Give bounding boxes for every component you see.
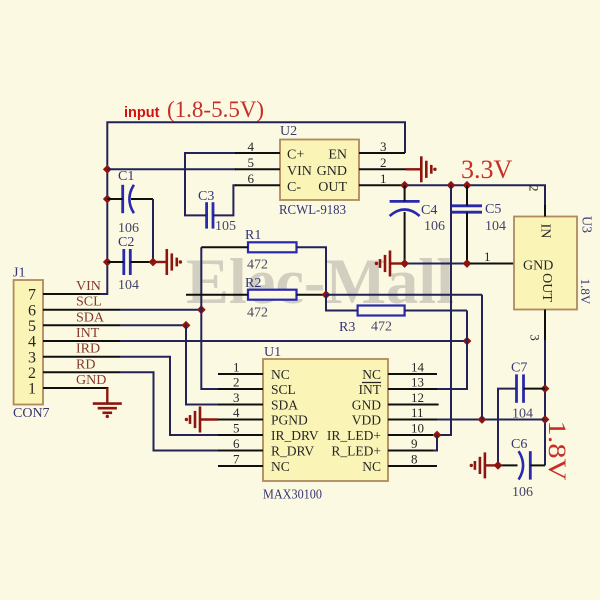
- wire GND rail: [405, 263, 470, 265]
- svg-text:(1.8-5.5V): (1.8-5.5V): [167, 97, 264, 122]
- svg-text:2: 2: [380, 155, 387, 170]
- svg-text:GND: GND: [76, 373, 106, 388]
- junction LED pins: [433, 431, 442, 440]
- pin U1.7 stub: [218, 465, 263, 467]
- wire SCL to R1 and U1.2: [201, 247, 218, 389]
- svg-text:R2: R2: [245, 276, 261, 291]
- resistor R3: [358, 306, 405, 316]
- pin J1 GND stub: [43, 387, 109, 389]
- svg-text:U1: U1: [264, 345, 281, 360]
- capacitor C7: [515, 374, 518, 402]
- wire SCL row: [120, 309, 201, 311]
- pin U1.1 stub: [218, 373, 263, 375]
- pin J1 SDA stub: [43, 324, 120, 326]
- pin U3.2 stub: [544, 205, 546, 217]
- junction C6 left: [494, 461, 503, 470]
- pin U2.4 stub: [235, 152, 280, 154]
- svg-text:5: 5: [28, 318, 36, 335]
- wire PGND stub (red): [201, 418, 218, 420]
- svg-text:C6: C6: [511, 437, 527, 452]
- svg-text:4: 4: [248, 139, 255, 154]
- op-amp U2 body: [280, 140, 359, 201]
- svg-text:INT: INT: [76, 326, 100, 341]
- svg-text:13: 13: [411, 375, 424, 390]
- wire C4 bottom lead: [404, 212, 406, 264]
- junction 1.8V row: [541, 415, 550, 424]
- svg-text:106: 106: [512, 485, 533, 500]
- pin J1 IRD stub: [43, 356, 120, 358]
- pin U1.2 stub: [218, 388, 263, 390]
- svg-text:1.8V: 1.8V: [578, 279, 593, 305]
- svg-text:472: 472: [247, 306, 268, 321]
- svg-text:IN: IN: [538, 224, 553, 239]
- wire R3 left lead: [326, 295, 358, 311]
- wire C7 left lead: [498, 389, 517, 466]
- junction C7 right: [541, 384, 550, 393]
- pin U1.6 stub: [218, 450, 263, 452]
- wire R2 left lead: [186, 294, 248, 296]
- junction rail/C5: [463, 181, 472, 190]
- svg-text:106: 106: [424, 219, 445, 234]
- junction rail/C4: [400, 181, 409, 190]
- svg-text:SDA: SDA: [271, 397, 298, 412]
- svg-text:C2: C2: [118, 235, 134, 250]
- svg-text:CON7: CON7: [13, 406, 50, 421]
- svg-text:1: 1: [233, 360, 240, 375]
- pin U2.2 stub: [359, 168, 406, 170]
- svg-text:VIN: VIN: [287, 164, 312, 179]
- capacitor C5: [452, 204, 482, 207]
- svg-text:input: input: [124, 105, 160, 121]
- svg-text:104: 104: [118, 278, 139, 293]
- svg-text:1: 1: [484, 249, 491, 264]
- wire R1 right lead: [297, 247, 327, 294]
- svg-text:OUT: OUT: [539, 273, 554, 302]
- svg-text:3: 3: [233, 390, 240, 405]
- ic U1 body: [263, 359, 388, 481]
- wire VIN bus (J1.7 to top rail to U2 EN): [100, 122, 405, 294]
- wire GND rail stub (red): [390, 262, 405, 264]
- svg-text:RD: RD: [76, 357, 95, 372]
- pin U1.4 stub: [218, 419, 263, 421]
- svg-text:3.3V: 3.3V: [461, 155, 513, 184]
- svg-text:3: 3: [380, 139, 387, 154]
- svg-text:472: 472: [371, 320, 392, 335]
- pin U1.14 stub: [388, 373, 437, 375]
- wire SDA to R2 and U1.3: [186, 325, 218, 404]
- svg-text:10: 10: [411, 421, 424, 436]
- wire C1 left lead: [107, 198, 122, 200]
- svg-text:RCWL-9183: RCWL-9183: [279, 202, 346, 217]
- wire C1 right lead: [131, 198, 153, 200]
- pin U2.3 stub: [359, 152, 405, 154]
- ground at PGND: [199, 407, 202, 433]
- svg-text:SDA: SDA: [76, 310, 105, 325]
- svg-text:R_LED+: R_LED+: [331, 443, 381, 458]
- pin U2.1 stub: [359, 184, 405, 186]
- svg-text:NC: NC: [362, 367, 381, 382]
- wire C1 to C2 (vertical): [152, 199, 154, 262]
- voltage regulator U3 body: [514, 217, 577, 310]
- svg-text:14: 14: [411, 360, 425, 375]
- svg-text:INT: INT: [359, 382, 382, 397]
- capacitor C4: [390, 200, 420, 203]
- junction VDD/R-pullups: [478, 415, 487, 424]
- junction SDA: [182, 321, 191, 330]
- pin U1.12 stub: [388, 404, 439, 406]
- junction rail/LED drop: [447, 181, 456, 190]
- junction INT: [463, 337, 472, 346]
- svg-text:6: 6: [233, 436, 240, 451]
- svg-text:J1: J1: [13, 266, 25, 281]
- junction pullup join: [322, 290, 331, 299]
- wire RD to U1.6: [120, 372, 218, 450]
- pin U1.10 stub: [388, 434, 433, 436]
- svg-text:5: 5: [233, 421, 240, 436]
- svg-text:MAX30100: MAX30100: [263, 487, 322, 502]
- svg-text:R1: R1: [245, 228, 261, 243]
- svg-text:R3: R3: [339, 320, 355, 335]
- svg-text:2: 2: [233, 375, 240, 390]
- svg-text:1.8V: 1.8V: [543, 421, 570, 481]
- pin J1 INT stub: [43, 340, 120, 342]
- junction bus/C1: [103, 195, 112, 204]
- ground at U2 pin 2: [420, 156, 423, 182]
- ground at C2: [166, 249, 169, 275]
- wire C5 top lead: [466, 185, 468, 206]
- svg-text:1: 1: [28, 381, 36, 398]
- wire J1 GND stub (red): [106, 388, 108, 404]
- pin U1.5 stub: [218, 434, 263, 436]
- svg-text:6: 6: [248, 171, 255, 186]
- svg-text:8: 8: [411, 452, 418, 467]
- svg-text:OUT: OUT: [318, 180, 347, 195]
- pin U1.3 stub: [218, 404, 263, 406]
- capacitor C1: [121, 185, 124, 213]
- wire U2 VIN row: [107, 168, 236, 170]
- svg-text:472: 472: [247, 258, 268, 273]
- pin J1 VIN stub: [43, 293, 100, 295]
- wire R3 right lead: [405, 310, 467, 312]
- ground at GND rail: [389, 251, 392, 277]
- pin U3.1 stub: [470, 263, 514, 265]
- svg-text:IR_DRV: IR_DRV: [271, 428, 319, 443]
- resistor R1: [248, 242, 297, 252]
- capacitor C6: [519, 451, 524, 479]
- svg-text:104: 104: [485, 219, 506, 234]
- pin U1.9 stub: [388, 450, 433, 452]
- svg-text:EN: EN: [328, 148, 347, 163]
- wire pullup row: [326, 294, 482, 296]
- svg-text:C5: C5: [485, 202, 501, 217]
- wire IRD to U1.5: [120, 357, 218, 435]
- svg-text:7: 7: [28, 287, 36, 304]
- svg-text:106: 106: [118, 221, 139, 236]
- svg-text:2: 2: [28, 365, 36, 382]
- svg-text:IR_LED+: IR_LED+: [327, 428, 381, 443]
- wire C6 ground stub (red): [486, 464, 498, 466]
- ground at J1: [93, 402, 122, 405]
- svg-text:IRD: IRD: [76, 342, 100, 357]
- wire INT row: [120, 340, 467, 342]
- capacitor C2: [122, 249, 125, 275]
- wire U2 C+ to C3 left: [185, 153, 236, 215]
- svg-text:GND: GND: [317, 164, 347, 179]
- junction gndrail/C4: [400, 259, 409, 268]
- wire VDD row 1.8V: [437, 419, 545, 421]
- svg-text:C1: C1: [118, 169, 134, 184]
- svg-text:GND: GND: [352, 397, 381, 412]
- svg-text:9: 9: [411, 436, 418, 451]
- junction bus/C2: [103, 258, 112, 267]
- svg-text:4: 4: [233, 405, 240, 420]
- wire R1 left lead: [201, 246, 248, 248]
- pin U2.6 stub: [235, 184, 280, 186]
- capacitor C3: [205, 202, 208, 228]
- pin U1.13 stub: [388, 388, 437, 390]
- resistor R2: [248, 290, 297, 300]
- svg-text:5: 5: [248, 155, 255, 170]
- wire 3.3V to IR_LED+/R_LED+: [437, 185, 451, 435]
- pin J1 SCL stub: [43, 309, 120, 311]
- svg-text:U2: U2: [280, 124, 297, 139]
- svg-text:2: 2: [527, 185, 542, 192]
- svg-text:11: 11: [411, 405, 424, 420]
- pin U1.8 stub: [388, 465, 437, 467]
- svg-text:12: 12: [411, 390, 424, 405]
- svg-text:PGND: PGND: [271, 412, 308, 427]
- svg-text:U3: U3: [579, 216, 594, 233]
- wire R_LED+ link: [433, 435, 437, 451]
- svg-text:105: 105: [215, 219, 236, 234]
- wire R2 right lead: [297, 294, 327, 296]
- wire C6 left lead: [498, 464, 518, 466]
- wire C2 right lead: [130, 261, 153, 263]
- junction SCL: [197, 305, 206, 314]
- svg-text:C-: C-: [287, 180, 301, 195]
- wire pullup drop: [481, 295, 483, 420]
- svg-text:3: 3: [528, 334, 543, 341]
- wire C3 right to U2 C-: [213, 185, 236, 215]
- pin U2.5 stub: [235, 168, 280, 170]
- svg-text:4: 4: [28, 334, 36, 351]
- svg-text:3: 3: [28, 349, 36, 366]
- svg-text:NC: NC: [362, 459, 381, 474]
- wire C6 right lead: [530, 464, 545, 466]
- junction gndrail/C5: [463, 259, 472, 268]
- svg-text:Elec-Mall: Elec-Mall: [186, 246, 454, 318]
- svg-text:7: 7: [233, 452, 240, 467]
- wire U3 OUT down: [544, 340, 546, 465]
- svg-text:1: 1: [380, 171, 387, 186]
- svg-text:C4: C4: [421, 203, 437, 218]
- wire 3.3V rail: [405, 185, 545, 205]
- pin J1 RD stub: [43, 371, 120, 373]
- connector J1 body: [14, 280, 43, 405]
- junction C2/ground: [149, 258, 158, 267]
- svg-text:C3: C3: [198, 189, 214, 204]
- svg-text:GND: GND: [523, 259, 553, 274]
- svg-text:C+: C+: [287, 148, 304, 163]
- junction bus/U2.VIN row: [103, 165, 112, 174]
- svg-text:6: 6: [28, 302, 36, 319]
- svg-text:VDD: VDD: [352, 412, 381, 427]
- wire U2 GND stub (red): [406, 168, 421, 170]
- wire C2 left lead: [107, 261, 124, 263]
- svg-text:SCL: SCL: [76, 295, 102, 310]
- wire C4 top lead: [404, 185, 406, 201]
- svg-text:VIN: VIN: [76, 279, 101, 294]
- wire SDA row: [120, 324, 186, 326]
- svg-text:C7: C7: [511, 361, 527, 376]
- wire C2 ground stub: [153, 261, 167, 263]
- pin U3.3 stub: [544, 310, 546, 341]
- svg-text:NC: NC: [271, 367, 290, 382]
- wire C5 bottom lead: [466, 212, 468, 263]
- pin U1.11 stub: [388, 419, 437, 421]
- wire INT to R3 and U1.13: [437, 311, 467, 390]
- svg-text:R_DRV: R_DRV: [271, 443, 314, 458]
- svg-text:NC: NC: [271, 459, 290, 474]
- wire C7 right lead: [524, 388, 546, 390]
- svg-text:SCL: SCL: [271, 382, 296, 397]
- ground at C6: [484, 452, 487, 478]
